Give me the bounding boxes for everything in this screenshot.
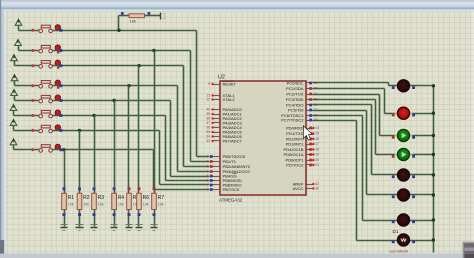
U2 left pin PB2/AIN0/INT2 (3)	[213, 166, 221, 168]
window top toolbar	[0, 0, 474, 11]
svg-text:2: 2	[207, 160, 209, 164]
push button SW2	[31, 49, 34, 52]
push button SW4	[31, 84, 34, 87]
svg-text:16: 16	[315, 137, 319, 141]
wire PC6 to LED 7	[313, 115, 363, 117]
wire R6 column	[138, 66, 140, 194]
resistor R3 10k	[92, 193, 97, 209]
wire row 3 left	[15, 65, 39, 67]
wire R6 to ground	[138, 210, 140, 227]
U2 left pin PA0/ADC0 (40) unconnected	[213, 109, 221, 111]
power terminal row 6	[10, 105, 17, 111]
junction bus / LED 2	[432, 112, 435, 115]
resistor R1 10k	[62, 193, 67, 209]
svg-text:5: 5	[207, 174, 209, 178]
svg-text:R2: R2	[83, 195, 90, 201]
ground R5	[126, 224, 133, 226]
U2 left pin PB4/SS (5)	[213, 176, 221, 178]
U2 right pin PC2/TCK (24)	[307, 94, 313, 96]
wire PC5 to LED 6	[313, 110, 367, 112]
wire R4 to ground	[114, 210, 116, 227]
junction row 4 / R5 column	[127, 84, 130, 87]
junction row 6 / R3 column	[92, 114, 95, 117]
LED D8 (off)	[409, 240, 434, 242]
wire R1 column	[64, 150, 66, 194]
ground R7	[151, 224, 158, 226]
svg-text:15: 15	[315, 132, 319, 136]
wire row 2 left	[19, 50, 39, 52]
U2 left pin PA7/ADC7 (33) unconnected	[213, 140, 221, 142]
resistor R5 10k	[127, 193, 132, 209]
svg-text:PC3/TMS: PC3/TMS	[286, 97, 304, 102]
wire PC4 to LED 5	[313, 104, 372, 106]
ground R6	[136, 224, 143, 226]
U2 right pin PD7/OC2 (21) unconnected	[307, 164, 313, 166]
wire row 7 right	[53, 130, 160, 132]
wire R3 column	[94, 116, 96, 194]
svg-text:40: 40	[206, 108, 210, 112]
power terminal row 5	[11, 90, 18, 96]
svg-text:10k: 10k	[130, 18, 136, 23]
svg-text:D1: D1	[393, 229, 399, 234]
LED D3 (grn)	[409, 135, 434, 137]
wire PC1 to LED 2	[313, 88, 385, 90]
wire row 8 right	[53, 149, 154, 151]
svg-text:14: 14	[315, 126, 319, 130]
U2 right pin PD4/OC1B (18) unconnected	[307, 149, 313, 151]
staircase wire row 6 to PB5	[165, 116, 167, 181]
svg-text:10k: 10k	[98, 203, 104, 207]
staircase wire row 2 to PB1	[190, 51, 192, 162]
svg-text:12: 12	[206, 98, 210, 102]
U2 left pin PB5/MOSI (6)	[213, 180, 221, 182]
wire row 6 left	[14, 115, 39, 117]
power terminal row 1	[15, 19, 22, 25]
wire R5 to ground	[128, 210, 130, 227]
LED D2 (red)	[409, 113, 434, 115]
wire row 7 left	[14, 130, 39, 132]
power terminal row 8	[10, 139, 17, 145]
U2 left pin PB6/MISO (7)	[213, 184, 221, 186]
wire row 8 left	[14, 149, 39, 151]
svg-text:PD0/RXD: PD0/RXD	[286, 126, 304, 131]
resistor R4 10k	[112, 193, 117, 209]
wire row 4 left	[15, 85, 39, 87]
wire R7 column	[154, 51, 156, 194]
U2 right pin PC4/TDO (26)	[307, 104, 313, 106]
svg-text:8: 8	[207, 188, 209, 192]
bottom-right grey popup	[463, 242, 474, 258]
right edge light strip	[471, 11, 474, 255]
LED D6 (off)	[409, 194, 434, 196]
svg-text:20: 20	[315, 158, 319, 162]
junction bus / LED 1	[432, 84, 435, 87]
U2 left pin PB3/AIN1/OC0 (4)	[213, 171, 221, 173]
power terminal row 7	[10, 119, 17, 125]
staircase wire row 8 to PB7	[153, 150, 155, 190]
junction bus / LED 5	[432, 173, 435, 176]
svg-text:PD3/INT1: PD3/INT1	[286, 142, 305, 147]
svg-text:AVCC: AVCC	[293, 186, 304, 191]
U2 right pin PC3/TMS (25)	[307, 99, 313, 101]
svg-text:3: 3	[207, 165, 209, 169]
svg-text:PD5/OC1A: PD5/OC1A	[283, 152, 303, 157]
U2 left pin XTAL2 (12) unconnected	[213, 99, 221, 101]
svg-text:10k: 10k	[83, 203, 89, 207]
junction row1 / 10k column	[117, 29, 120, 32]
ground R2	[76, 224, 84, 226]
wire row 4 right	[53, 85, 178, 87]
wire R7 to ground	[154, 210, 156, 227]
wire R4 column	[114, 101, 116, 194]
wire R1 to ground	[64, 210, 66, 227]
svg-text:R6: R6	[143, 195, 150, 201]
svg-text:R4: R4	[118, 195, 125, 201]
ground R1	[61, 224, 68, 226]
U2 right pin PC6/TOSC1 (28)	[307, 115, 313, 117]
svg-text:ATMEGA32: ATMEGA32	[219, 198, 243, 203]
svg-text:PC0/SCL: PC0/SCL	[287, 81, 305, 86]
U2 right pin PD3/INT1 (17) unconnected	[307, 144, 313, 146]
U2 left pin PA2/ADC2 (38) unconnected	[213, 118, 221, 120]
junction bus / LED 8	[432, 238, 435, 241]
U2 left pin PB1/T1 (2)	[213, 161, 221, 163]
U2 left pin RESET (9) unconnected	[213, 84, 221, 86]
svg-text:19: 19	[315, 153, 319, 157]
U2 right pin PC1/SDA (23)	[307, 88, 313, 90]
wire R2 column	[79, 131, 81, 194]
LED D4 (grn)	[409, 154, 434, 156]
svg-text:9: 9	[208, 82, 210, 86]
svg-text:PC7/TOSC2: PC7/TOSC2	[281, 118, 304, 123]
svg-text:PA7/ADC7: PA7/ADC7	[223, 139, 243, 144]
wire row 1 left	[19, 30, 39, 32]
wire row 6 right	[53, 115, 166, 117]
svg-text:4: 4	[207, 170, 209, 174]
svg-text:R3: R3	[98, 195, 105, 201]
svg-text:33: 33	[206, 139, 210, 143]
wire R2 to ground	[79, 210, 81, 227]
wire row 5 left	[15, 100, 39, 102]
LED D5 (off)	[409, 174, 434, 176]
U2 right pin AREF (32)	[307, 184, 313, 186]
wire PC3 to LED 4	[313, 99, 376, 101]
U2 right pin PC5/TDI (27)	[307, 110, 313, 112]
U2 right pin AVCC (30)	[307, 188, 313, 190]
svg-text:R1: R1	[68, 195, 75, 201]
mouse cursor	[303, 126, 312, 140]
svg-text:39: 39	[206, 112, 210, 116]
U2 left pin XTAL1 (13) unconnected	[213, 95, 221, 97]
svg-text:U2: U2	[218, 75, 225, 81]
junction row 8 / R1 column	[62, 148, 65, 151]
junction bus / LED 4	[432, 153, 435, 156]
svg-text:R7: R7	[158, 195, 165, 201]
push button SW1	[31, 29, 34, 32]
U2 left pin PA3/ADC3 (37) unconnected	[213, 122, 221, 124]
junction row 7 / R2 column	[78, 129, 81, 132]
wire row 2 right	[53, 50, 191, 52]
svg-text:35: 35	[206, 130, 210, 134]
U2 right pin PC7/TOSC2 (29)	[307, 120, 313, 122]
svg-text:10k: 10k	[118, 203, 124, 207]
U2 left pin PB0/T0/XCK (1)	[213, 156, 221, 158]
wire R3 to ground	[94, 210, 96, 227]
push button SW5	[31, 99, 34, 102]
svg-text:32: 32	[315, 182, 319, 186]
junction bus / LED 3	[432, 134, 435, 137]
svg-text:21: 21	[315, 163, 319, 167]
staircase wire row 3 to PB2	[183, 66, 185, 167]
U2 left pin PA6/ADC6 (34) unconnected	[213, 136, 221, 138]
svg-text:10k: 10k	[143, 203, 149, 207]
LED D7 (off)	[409, 220, 434, 222]
svg-text:10k: 10k	[158, 203, 164, 207]
junction bus / LED 6	[432, 193, 435, 196]
wire PC0 to LED 1	[313, 82, 389, 84]
ground R3	[91, 224, 98, 226]
resistor R7 10k	[152, 193, 157, 209]
power terminal (right of 10k)	[160, 13, 162, 20]
staircase wire row 7 to PB6	[159, 131, 161, 185]
U2 right pin PC0/SCL (22)	[307, 82, 313, 84]
wire R5 column	[128, 86, 130, 194]
U2 body	[220, 81, 306, 195]
svg-text:RESET: RESET	[223, 82, 237, 87]
U2 left pin PA4/ADC4 (36) unconnected	[213, 127, 221, 129]
wire PC7 to LED 8	[313, 120, 357, 122]
LED D1 (off)	[409, 85, 434, 87]
U2 left pin PA5/ADC5 (35) unconnected	[213, 132, 221, 134]
window bottom strip	[0, 254, 474, 258]
svg-text:1: 1	[207, 155, 209, 159]
window left edge strip	[0, 0, 5, 255]
U2 right pin PD5/OC1A (19) unconnected	[307, 154, 313, 156]
wire row 1 right	[53, 30, 197, 32]
wire row 5 right	[53, 100, 171, 102]
svg-text:10k: 10k	[68, 203, 74, 207]
svg-text:XTAL2: XTAL2	[223, 97, 236, 102]
junction row 3 / R6 column	[137, 64, 140, 67]
wire 10k resistor right	[145, 15, 161, 17]
svg-text:30: 30	[315, 187, 319, 191]
svg-text:PC2/TCK: PC2/TCK	[286, 92, 303, 97]
svg-text:18: 18	[315, 148, 319, 152]
wire 10k resistor left to row1	[119, 15, 129, 17]
U2 right pin PD0/RXD (14) unconnected	[307, 128, 313, 130]
U2 right pin PD1/TXD (15) unconnected	[307, 133, 313, 135]
push button SW3	[31, 64, 34, 67]
U2 left pin PB7/SCK (8)	[213, 189, 221, 191]
U2 right pin PD2/INT0 (16) unconnected	[307, 138, 313, 140]
wire row 3 right	[53, 65, 184, 67]
svg-text:PC5/TDI: PC5/TDI	[288, 108, 304, 113]
wire PC2 to LED 3	[313, 94, 380, 96]
power terminal row 2	[15, 40, 22, 46]
svg-text:PB7/SCK: PB7/SCK	[223, 187, 240, 192]
push button SW8	[31, 148, 34, 151]
resistor R2 10k	[77, 193, 82, 209]
staircase wire row 5 to PB4	[170, 101, 172, 177]
junction bus / LED 7	[432, 218, 435, 221]
svg-text:34: 34	[206, 135, 210, 139]
svg-text:PD7/OC2: PD7/OC2	[286, 163, 304, 168]
ground R4	[111, 224, 118, 226]
svg-text:7: 7	[207, 183, 209, 187]
wire LED cathode bus	[433, 86, 435, 253]
power terminal row 4	[11, 75, 18, 81]
svg-text:PC1/SDA: PC1/SDA	[286, 86, 304, 91]
svg-text:LED-GREEN: LED-GREEN	[390, 250, 409, 254]
staircase wire row 4 to PB3	[177, 86, 179, 172]
push button SW6	[31, 114, 34, 117]
svg-text:6: 6	[207, 179, 209, 183]
junction row 5 / R4 column	[112, 99, 115, 102]
svg-text:38: 38	[206, 117, 210, 121]
U2 right pin PD6/ICP1 (20) unconnected	[307, 160, 313, 162]
staircase wire row 1 to PB0	[196, 31, 198, 157]
junction row 2 / R7 column	[152, 49, 155, 52]
svg-text:PD1/TXD: PD1/TXD	[286, 131, 303, 136]
resistor R8 10k (top)	[129, 14, 145, 18]
push button SW7	[31, 129, 34, 132]
resistor R6 10k	[137, 193, 142, 209]
U2 left pin PA1/ADC1 (39) unconnected	[213, 114, 221, 116]
svg-text:37: 37	[206, 121, 210, 125]
power terminal row 3	[11, 55, 18, 61]
svg-text:36: 36	[206, 126, 210, 130]
svg-text:17: 17	[315, 142, 319, 146]
